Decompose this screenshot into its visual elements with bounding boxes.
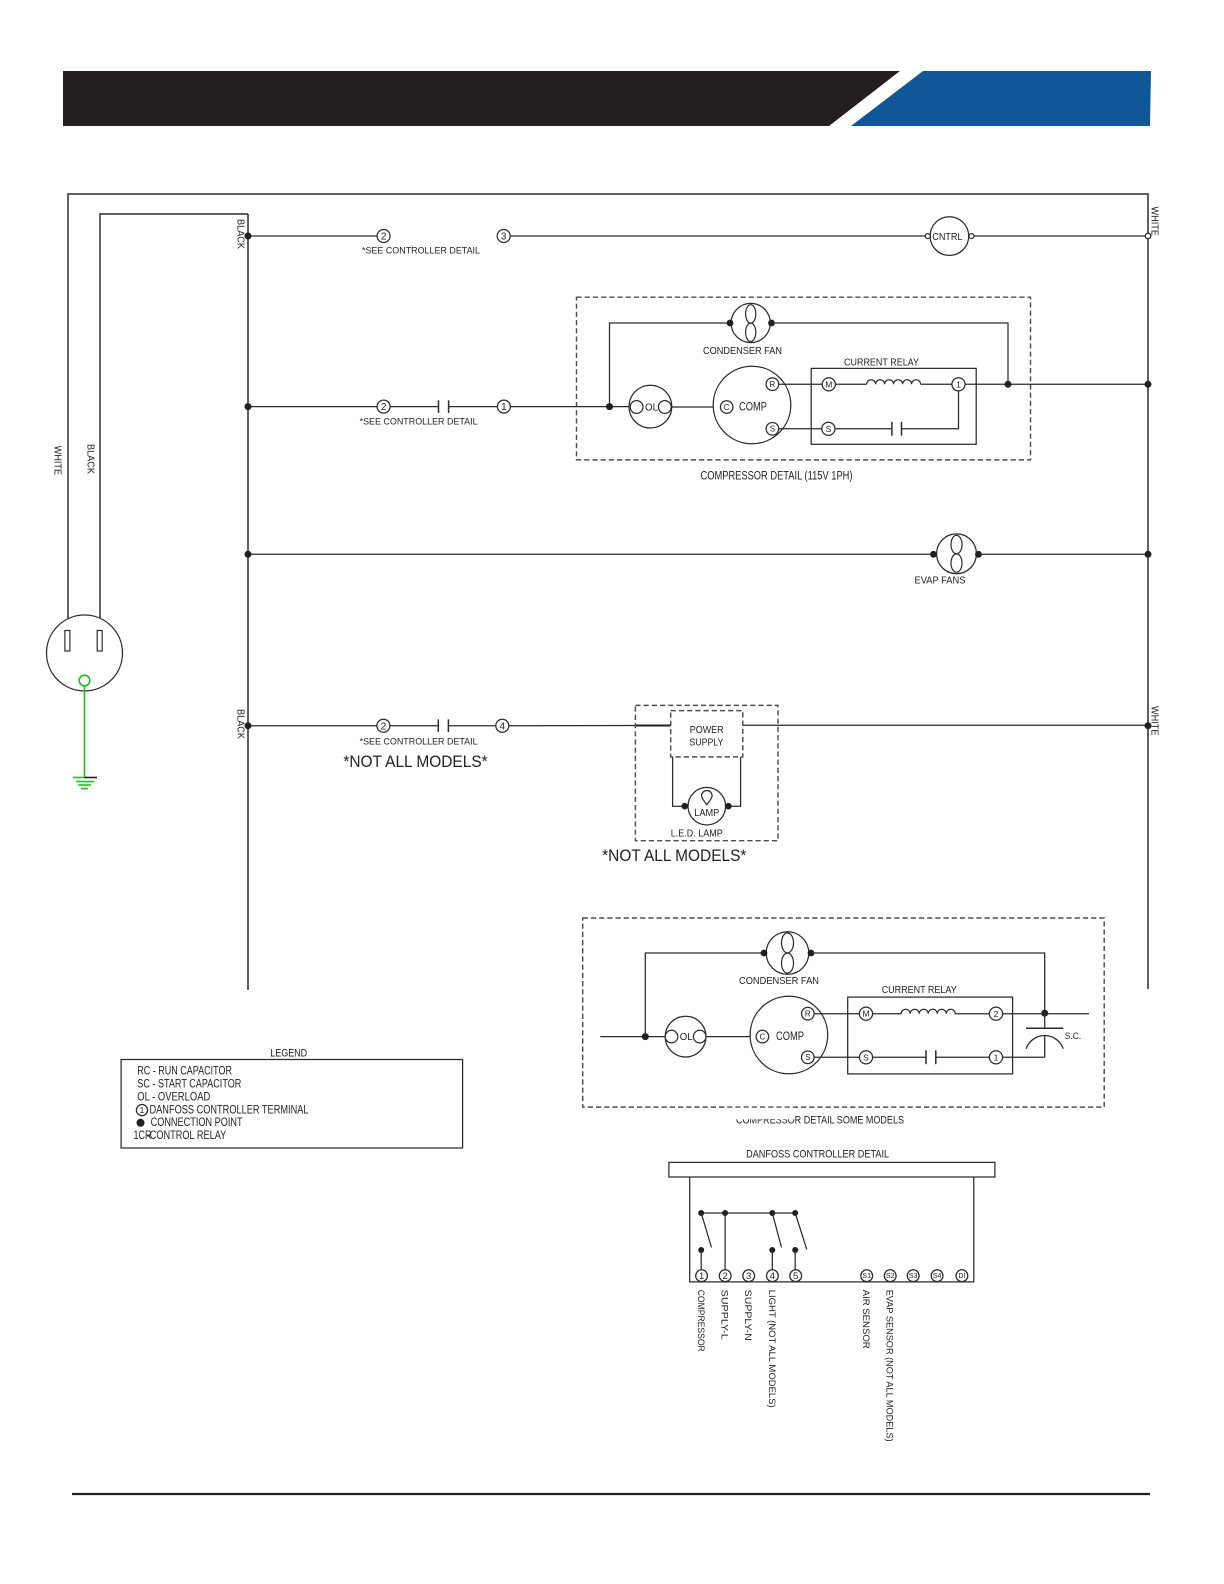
controller terminal S2 <box>884 1270 896 1282</box>
terminal 2 (rail4) <box>377 719 390 732</box>
svg-text:3: 3 <box>746 1271 751 1282</box>
header black banner <box>63 71 900 126</box>
svg-text:SUPPLY-N: SUPPLY-N <box>742 1290 753 1341</box>
relay terminal M (box2) <box>859 1007 872 1020</box>
svg-text:*SEE CONTROLLER DETAIL: *SEE CONTROLLER DETAIL <box>360 736 478 747</box>
svg-text:CNTRL: CNTRL <box>932 231 962 243</box>
terminal 3 (rail1) <box>497 230 510 243</box>
start capacitor S.C. <box>1026 1013 1063 1057</box>
svg-text:CONDENSER FAN: CONDENSER FAN <box>703 345 782 357</box>
svg-text:OL - OVERLOAD: OL - OVERLOAD <box>137 1089 210 1103</box>
wire relay 1 to white bus <box>965 383 1148 385</box>
svg-text:4: 4 <box>500 721 506 732</box>
wire R to relay M (box1) <box>779 383 823 385</box>
compressor COMP (box2) <box>750 996 828 1074</box>
run capacitor RC (rail2) <box>439 400 449 413</box>
wire capacitor to relay terminal 1 (box1) <box>902 391 959 429</box>
junction dot white bus rail2 <box>1145 381 1152 388</box>
terminal 4 (rail4) <box>496 719 509 732</box>
controller terminal S1 <box>861 1270 873 1282</box>
legend box <box>121 1060 463 1149</box>
svg-text:SUPPLY: SUPPLY <box>689 738 723 749</box>
condenser fan (box1) <box>731 303 770 342</box>
compressor COMP (box1) <box>713 366 791 444</box>
svg-text:M: M <box>862 1009 869 1019</box>
svg-text:C: C <box>760 1032 766 1041</box>
svg-text:S1: S1 <box>862 1273 871 1280</box>
relay terminal 1 (box2) <box>989 1051 1002 1064</box>
condenser fan wire right (box1) <box>772 323 1009 384</box>
relay coil inductor (box1) <box>867 380 921 384</box>
condenser fan wire left (box2) <box>645 953 766 1037</box>
svg-text:CONDENSER FAN: CONDENSER FAN <box>739 975 819 987</box>
wire: white conductor loop (left up, top, right down) <box>68 194 1148 989</box>
junction dot fan tap (box2) <box>642 1033 649 1040</box>
wire R to relay M (box2) <box>814 1013 859 1015</box>
controller terminal 5 <box>790 1270 802 1282</box>
controller terminal 1 <box>696 1270 708 1282</box>
junction dot bus rail3 <box>245 551 252 558</box>
svg-text:EVAP FANS: EVAP FANS <box>915 575 966 587</box>
current relay box (box2) <box>848 997 1013 1074</box>
svg-text:BLACK: BLACK <box>235 709 247 739</box>
wire coil to relay terminal 2 (box2) <box>955 1013 989 1015</box>
wire: black conductor from plug to bus <box>100 214 248 631</box>
svg-text:WHITE: WHITE <box>52 446 64 476</box>
junction dot rail2 fan tap <box>606 403 613 410</box>
svg-text:COMPRESSOR: COMPRESSOR <box>695 1290 706 1352</box>
lamp circuit wires <box>673 757 741 806</box>
white overlay artifact on label <box>726 1108 794 1120</box>
wire coil to relay terminal 1 (box1) <box>921 383 952 385</box>
switch blade 1 <box>701 1213 711 1248</box>
junction dot fan left (box1) <box>727 320 734 327</box>
wire OL to COMP (box2) <box>706 1036 756 1038</box>
plug body <box>47 615 123 691</box>
svg-text:LAMP: LAMP <box>694 808 719 819</box>
junction dot lamp left <box>681 803 688 810</box>
svg-text:S: S <box>805 1053 810 1062</box>
svg-text:2: 2 <box>994 1009 999 1019</box>
condenser fan wire left (box1) <box>610 323 733 407</box>
svg-text:2: 2 <box>723 1271 728 1282</box>
condenser fan (box2) <box>766 932 809 975</box>
junction dot bus rail2 <box>245 403 252 410</box>
stub wire into box2 <box>600 1036 665 1038</box>
junction dot fan drop (box1) <box>1005 381 1012 388</box>
condenser fan wire right (box2) <box>811 953 1045 1013</box>
wire: black bus vertical <box>247 214 249 990</box>
controller terminal 4 <box>767 1270 779 1282</box>
wire to terminal4 <box>771 1250 773 1270</box>
switch bus line <box>701 1212 795 1214</box>
terminal 2 (rail1) <box>377 230 390 243</box>
evap fans motor <box>937 534 977 574</box>
svg-text:S.C.: S.C. <box>1065 1031 1082 1042</box>
ground symbol <box>73 778 97 789</box>
svg-text:R: R <box>805 1010 811 1019</box>
svg-text:S: S <box>826 424 832 434</box>
svg-text:S: S <box>770 425 775 434</box>
bottom rule <box>72 1493 1150 1495</box>
svg-text:*NOT ALL MODELS*: *NOT ALL MODELS* <box>343 752 488 771</box>
svg-text:COMPRESSOR DETAIL (115V 1PH): COMPRESSOR DETAIL (115V 1PH) <box>701 471 853 483</box>
wire terminal1 into compressor box <box>510 406 630 408</box>
relay coil CNTRL <box>925 217 974 256</box>
svg-text:OL: OL <box>680 1032 693 1043</box>
wire S to relay S (box1) <box>779 428 822 430</box>
switch node dots bottom <box>698 1247 704 1253</box>
svg-text:*NOT ALL MODELS*: *NOT ALL MODELS* <box>602 846 747 865</box>
svg-text:EVAP SENSOR (NOT ALL MODELS): EVAP SENSOR (NOT ALL MODELS) <box>884 1290 895 1442</box>
wire to terminal1 <box>700 1250 702 1270</box>
svg-text:WHITE: WHITE <box>1149 207 1161 237</box>
wire relay S to capacitor (box2) <box>873 1056 926 1058</box>
legend: danfoss controller terminal symbol <box>136 1105 147 1116</box>
start capacitor in relay (box1) <box>892 422 902 436</box>
svg-text:SC - START CAPACITOR: SC - START CAPACITOR <box>137 1077 241 1091</box>
wire power supply to white bus <box>743 724 1148 726</box>
LED lamp circle <box>688 787 726 825</box>
wire relay 1 to SC (box2) <box>1003 1056 1045 1058</box>
junction dot fan right (box1) <box>768 320 775 327</box>
svg-text:1: 1 <box>956 380 961 390</box>
overload OL (box2) <box>665 1016 706 1057</box>
ground wire (green) <box>84 686 86 778</box>
wire terminal2 direct <box>724 1213 726 1270</box>
junction dot fan left (box2) <box>761 950 768 957</box>
run capacitor (rail4) <box>438 719 448 732</box>
wire capacitor to relay terminal 1 (box2) <box>936 1056 990 1058</box>
relay terminal S (box1) <box>822 422 835 435</box>
dashed box: compressor detail some models <box>583 918 1104 1107</box>
svg-text:SUPPLY-L: SUPPLY-L <box>719 1290 730 1340</box>
wire relay 2 to stub right <box>1003 1013 1089 1015</box>
svg-text:1: 1 <box>140 1105 145 1115</box>
controller terminal DI <box>956 1270 968 1282</box>
wire M to coil (box2) <box>873 1013 902 1015</box>
wire thick segment into lamp box <box>635 724 670 726</box>
controller body <box>690 1177 974 1282</box>
current relay box (box1) <box>811 368 976 444</box>
wire rail2 left <box>248 406 377 408</box>
power supply box <box>671 711 743 757</box>
wire rail1 left <box>248 235 377 237</box>
svg-text:CURRENT RELAY: CURRENT RELAY <box>844 356 919 368</box>
controller top bar <box>669 1162 995 1177</box>
capacitor in relay (box2) <box>926 1050 936 1064</box>
wire relay S to start capacitor (box1) <box>835 428 892 430</box>
svg-text:2: 2 <box>381 232 387 243</box>
svg-text:1: 1 <box>994 1053 999 1063</box>
junction dot white bus rail3 <box>1145 551 1152 558</box>
svg-text:LIGHT (NOT ALL MODELS): LIGHT (NOT ALL MODELS) <box>766 1290 777 1408</box>
svg-text:2: 2 <box>381 402 387 413</box>
switch node dots top <box>698 1210 704 1216</box>
svg-text:LEGEND: LEGEND <box>270 1048 307 1060</box>
svg-text:1: 1 <box>501 402 507 413</box>
relay coil inductor (box2) <box>901 1009 955 1013</box>
svg-text:M: M <box>825 379 832 389</box>
wire terminal2 to run capacitor (rail4) <box>390 725 438 727</box>
wire OL to COMP (box1) <box>671 406 720 408</box>
wire M to coil (box1) <box>835 383 866 385</box>
dashed box: LED lamp (not all models) <box>635 705 778 840</box>
svg-text:BLACK: BLACK <box>84 444 96 474</box>
wire rail3 <box>248 553 937 555</box>
switch blade 5 <box>795 1213 807 1249</box>
svg-text:DANFOSS CONTROLLER DETAIL: DANFOSS CONTROLLER DETAIL <box>746 1149 889 1161</box>
header blue banner <box>851 71 1151 126</box>
controller terminal S4 <box>931 1270 943 1282</box>
svg-text:COMP: COMP <box>776 1031 804 1043</box>
junction (hollow) at white bus rail1 <box>1145 233 1150 238</box>
svg-text:2: 2 <box>381 721 387 732</box>
switch blade 4 <box>772 1213 781 1248</box>
svg-text:3: 3 <box>501 232 507 243</box>
svg-text:1: 1 <box>699 1271 704 1282</box>
relay terminal 2 (box2) <box>989 1007 1002 1020</box>
relay terminal 1 (box1) <box>952 378 965 391</box>
wire to terminal5 <box>794 1250 796 1270</box>
svg-text:POWER: POWER <box>690 725 724 736</box>
svg-text:S3: S3 <box>909 1273 918 1280</box>
svg-text:5: 5 <box>793 1271 798 1282</box>
svg-text:R: R <box>770 380 776 389</box>
svg-text:WHITE: WHITE <box>1149 706 1161 736</box>
junction dot SC tap (box2) <box>1041 1010 1048 1017</box>
junction dot bus rail1 <box>245 233 252 240</box>
wire run capacitor to terminal1 <box>449 406 498 408</box>
svg-text:BLACK: BLACK <box>235 219 247 249</box>
svg-text:CONNECTION POINT: CONNECTION POINT <box>151 1115 244 1129</box>
svg-text:OL: OL <box>645 403 658 414</box>
wire rail3 right <box>979 553 1149 555</box>
svg-text:DANFOSS CONTROLLER TERMINAL: DANFOSS CONTROLLER TERMINAL <box>150 1102 309 1116</box>
wire rail1 right <box>510 235 925 237</box>
junction dot fan right (box2) <box>808 950 815 957</box>
svg-text:S4: S4 <box>933 1273 942 1280</box>
plug prong left (white) <box>65 631 70 652</box>
svg-text:S2: S2 <box>886 1273 895 1280</box>
wire capacitor to terminal 4 <box>448 725 495 727</box>
svg-text:DI: DI <box>958 1273 965 1280</box>
terminal 2 (rail2) <box>377 400 390 413</box>
controller terminal 2 <box>719 1270 731 1282</box>
dashed box: compressor detail 115V 1PH <box>577 297 1031 460</box>
svg-text:L.E.D. LAMP: L.E.D. LAMP <box>671 827 723 839</box>
junction dot evap left <box>930 551 937 558</box>
svg-text:4: 4 <box>770 1271 775 1282</box>
wire rail4 left <box>248 725 377 727</box>
svg-text:RC - RUN CAPACITOR: RC - RUN CAPACITOR <box>137 1064 232 1078</box>
svg-text:CONTROL RELAY: CONTROL RELAY <box>150 1128 227 1142</box>
svg-text:*SEE CONTROLLER DETAIL: *SEE CONTROLLER DETAIL <box>362 246 480 257</box>
controller terminal S3 <box>907 1270 919 1282</box>
wire S to relay S (box2) <box>814 1056 859 1058</box>
svg-text:AIR SENSOR: AIR SENSOR <box>860 1290 871 1349</box>
svg-text:S: S <box>863 1052 869 1062</box>
svg-text:COMP: COMP <box>739 402 767 414</box>
junction dot white bus rail4 <box>1145 722 1152 729</box>
overload OL (box1) <box>629 385 672 428</box>
junction dot lamp right <box>725 803 732 810</box>
wire CNTRL to white bus <box>974 235 1148 237</box>
legend: connection point symbol <box>137 1119 145 1127</box>
svg-text:*SEE CONTROLLER DETAIL: *SEE CONTROLLER DETAIL <box>360 416 478 427</box>
wire terminal2 to run capacitor <box>390 406 438 408</box>
relay terminal S (box2) <box>859 1051 872 1064</box>
junction dot evap right <box>975 551 982 558</box>
relay terminal M (box1) <box>822 378 835 391</box>
plug ground pin (green circle) <box>79 675 90 686</box>
terminal 1 (rail2) <box>497 400 510 413</box>
junction dot bus rail4 <box>245 722 252 729</box>
svg-text:C: C <box>724 403 730 412</box>
plug prong right (black) <box>97 631 102 652</box>
svg-text:CURRENT RELAY: CURRENT RELAY <box>882 984 957 996</box>
controller terminal 3 <box>743 1270 755 1282</box>
wire terminal4 to power supply <box>509 725 671 727</box>
